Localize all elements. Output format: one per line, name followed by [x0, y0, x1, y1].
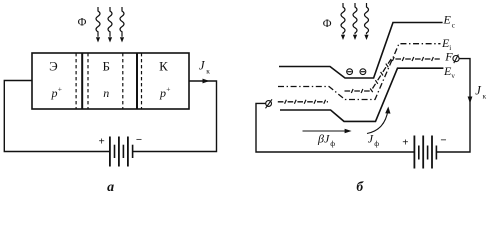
photon arrow a2 — [108, 7, 112, 37]
photon arrow b1 — [341, 3, 345, 34]
svg-text:J: J — [368, 131, 374, 145]
wire emitter to battery (left loop) — [4, 81, 110, 152]
wire collector out (right) — [133, 81, 217, 152]
svg-text:к: к — [206, 67, 210, 76]
wire right terminal to battery (b) — [436, 59, 470, 152]
base-collector depletion boundary (left dashed) — [122, 53, 124, 109]
svg-text:v: v — [451, 72, 455, 80]
base-collector depletion boundary (right dashed) — [141, 53, 143, 109]
svg-text:p: p — [51, 86, 58, 100]
svg-text:Φ: Φ — [323, 16, 332, 30]
svg-text:J: J — [199, 59, 206, 73]
left terminal symbol — [266, 99, 273, 108]
svg-text:Б: Б — [102, 59, 109, 74]
wire left terminal to battery (b) — [256, 103, 414, 152]
svg-text:а: а — [107, 180, 114, 195]
emitter-base junction line — [81, 53, 83, 109]
svg-text:n: n — [103, 86, 109, 100]
photon arrow b3 — [365, 3, 369, 34]
svg-text:+: + — [98, 136, 104, 148]
svg-text:J: J — [475, 84, 482, 98]
svg-text:E: E — [443, 13, 452, 27]
transistor body box — [32, 53, 189, 109]
base-collector junction line — [136, 53, 138, 109]
svg-text:−: − — [136, 134, 142, 146]
svg-text:βJ: βJ — [317, 131, 330, 145]
svg-text:Э: Э — [49, 59, 58, 74]
right terminal symbol — [453, 55, 459, 64]
photon arrow a1 — [96, 7, 100, 37]
emitter-base depletion boundary (right dashed) — [87, 53, 89, 109]
collector current arrowhead (b) — [468, 97, 473, 104]
svg-text:+: + — [58, 85, 62, 94]
svg-text:+: + — [166, 85, 170, 94]
svg-text:p: p — [159, 86, 166, 100]
battery GB (a) — [110, 137, 133, 167]
svg-text:c: c — [452, 21, 456, 30]
battery GB (b) — [414, 136, 436, 169]
svg-text:ф: ф — [374, 139, 379, 148]
intrinsic level Ei (dash-dot) — [278, 44, 441, 100]
trapped electron charge 1 — [347, 69, 353, 75]
svg-text:F: F — [444, 50, 453, 64]
conduction band Ec — [279, 23, 443, 79]
svg-text:Φ: Φ — [78, 15, 87, 29]
svg-text:к: к — [483, 92, 487, 101]
svg-text:+: + — [402, 137, 408, 149]
collector current arrowhead — [203, 79, 210, 84]
photon arrow b2 — [353, 3, 357, 34]
svg-text:ф: ф — [330, 139, 335, 148]
trapped electron charge 2 — [360, 69, 366, 75]
Fermi level F (dash-slash) — [278, 59, 440, 102]
photon arrow a3 — [120, 7, 124, 37]
amplified current arrow beta*Jf — [303, 130, 347, 132]
emitter-base depletion boundary (left dashed) — [75, 53, 77, 109]
svg-text:−: − — [440, 134, 446, 146]
svg-text:К: К — [159, 59, 168, 74]
valence band Ev — [280, 68, 443, 121]
svg-text:б: б — [356, 179, 364, 194]
photocurrent arrow Jf (curved) — [367, 110, 388, 134]
